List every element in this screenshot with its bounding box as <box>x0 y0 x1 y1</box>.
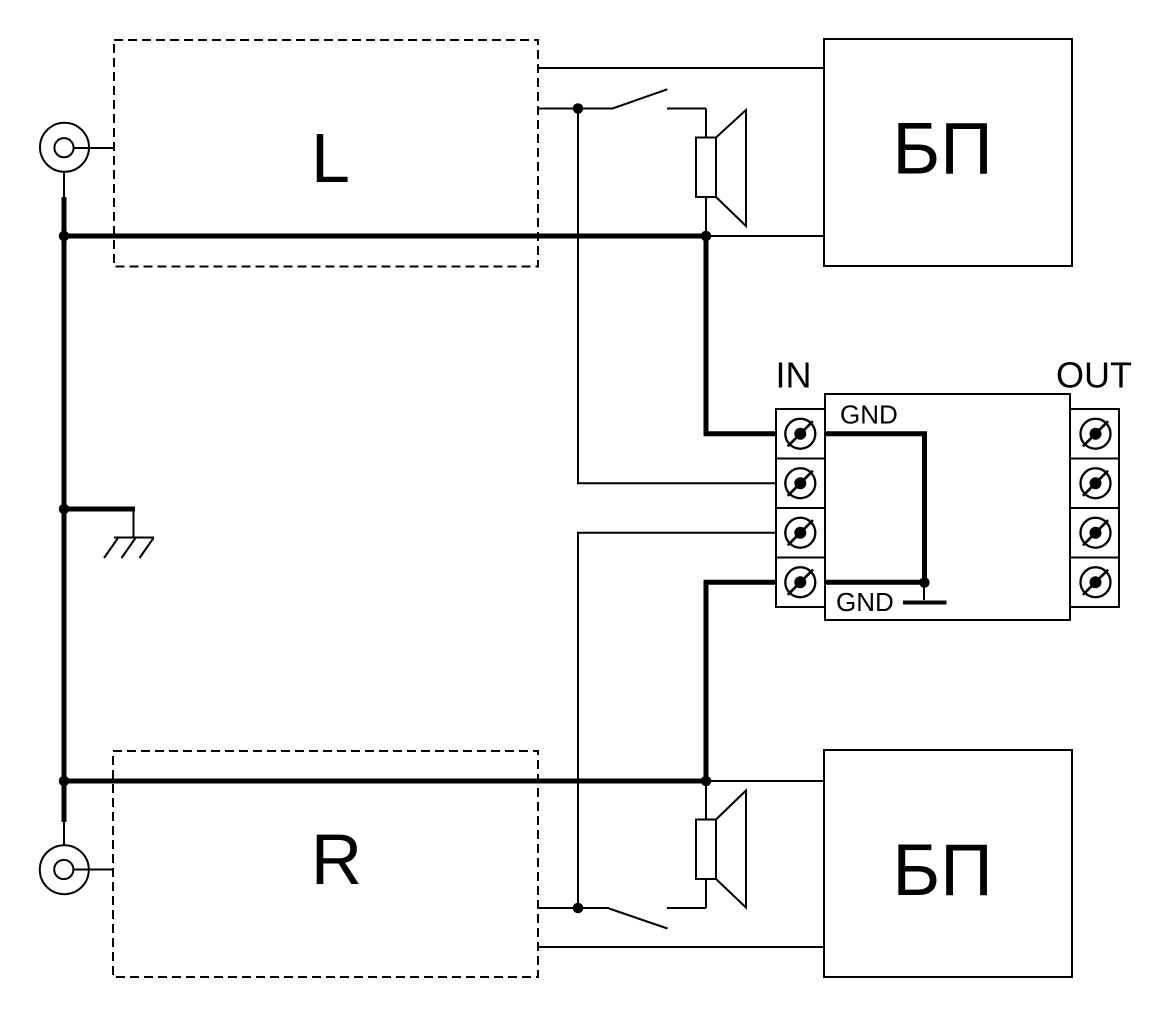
svg-text:БП: БП <box>892 109 992 190</box>
svg-text:OUT: OUT <box>1056 355 1132 396</box>
svg-text:БП: БП <box>892 830 992 911</box>
svg-text:L: L <box>311 119 350 197</box>
svg-text:R: R <box>311 821 362 900</box>
svg-text:GND: GND <box>840 400 898 430</box>
svg-text:IN: IN <box>776 355 812 396</box>
svg-text:GND: GND <box>836 587 894 617</box>
